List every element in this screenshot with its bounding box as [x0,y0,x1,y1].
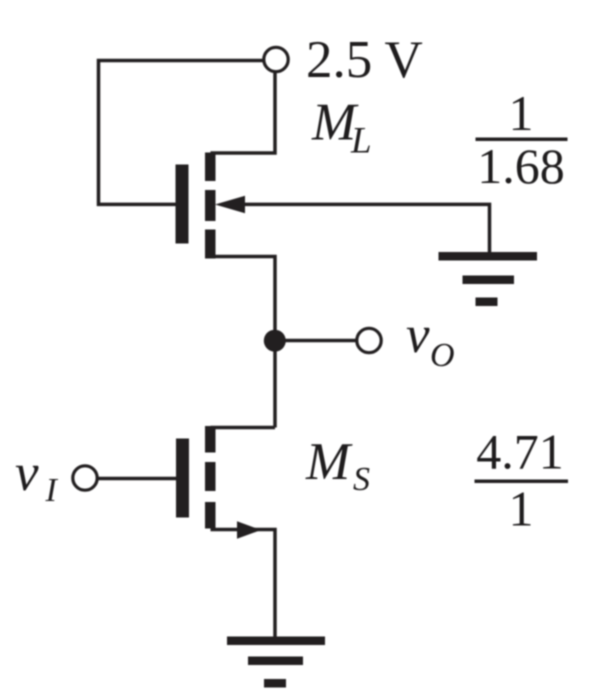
svg-text:S: S [353,461,370,498]
svg-text:O: O [430,337,455,374]
svg-text:2.5 V: 2.5 V [306,31,423,89]
svg-text:I: I [45,472,59,509]
svg-text:M: M [305,433,353,491]
svg-text:1.68: 1.68 [477,138,565,194]
svg-text:1: 1 [509,85,534,141]
svg-text:v: v [15,444,39,502]
svg-text:v: v [406,306,430,364]
svg-text:4.71: 4.71 [476,424,564,480]
svg-text:1: 1 [509,481,534,537]
svg-text:L: L [350,121,372,162]
